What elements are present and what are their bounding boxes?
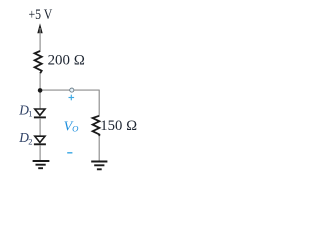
wire: right branch vertical top — [98, 90, 100, 117]
svg-text:150 Ω: 150 Ω — [100, 118, 137, 134]
wire: supply arrow to resistor R1 top — [39, 28, 41, 52]
wire: D2 to ground — [39, 145, 41, 161]
ground right — [91, 162, 107, 170]
wire: resistor R1 bottom to diode D1 — [39, 73, 41, 109]
wire: resistor 150 to ground — [98, 136, 100, 161]
svg-text:VO: VO — [64, 120, 80, 135]
minus sign — [67, 152, 72, 154]
diode D1 — [34, 109, 46, 117]
wire: D1 to D2 — [39, 118, 41, 136]
svg-text:200 Ω: 200 Ω — [48, 53, 86, 69]
svg-text:D1: D1 — [18, 103, 32, 119]
svg-text:D2: D2 — [18, 130, 32, 146]
resistor 200 ohm — [35, 51, 42, 73]
diode D2 — [34, 136, 46, 144]
resistor 150 ohm — [93, 116, 100, 136]
ground left — [33, 161, 50, 168]
junction dot — [38, 88, 43, 93]
svg-text:+5 V: +5 V — [29, 7, 53, 23]
wire: output node horizontal — [40, 89, 99, 91]
+5 V supply arrow — [37, 23, 42, 33]
plus sign — [69, 95, 75, 101]
output terminal circle — [70, 88, 74, 92]
